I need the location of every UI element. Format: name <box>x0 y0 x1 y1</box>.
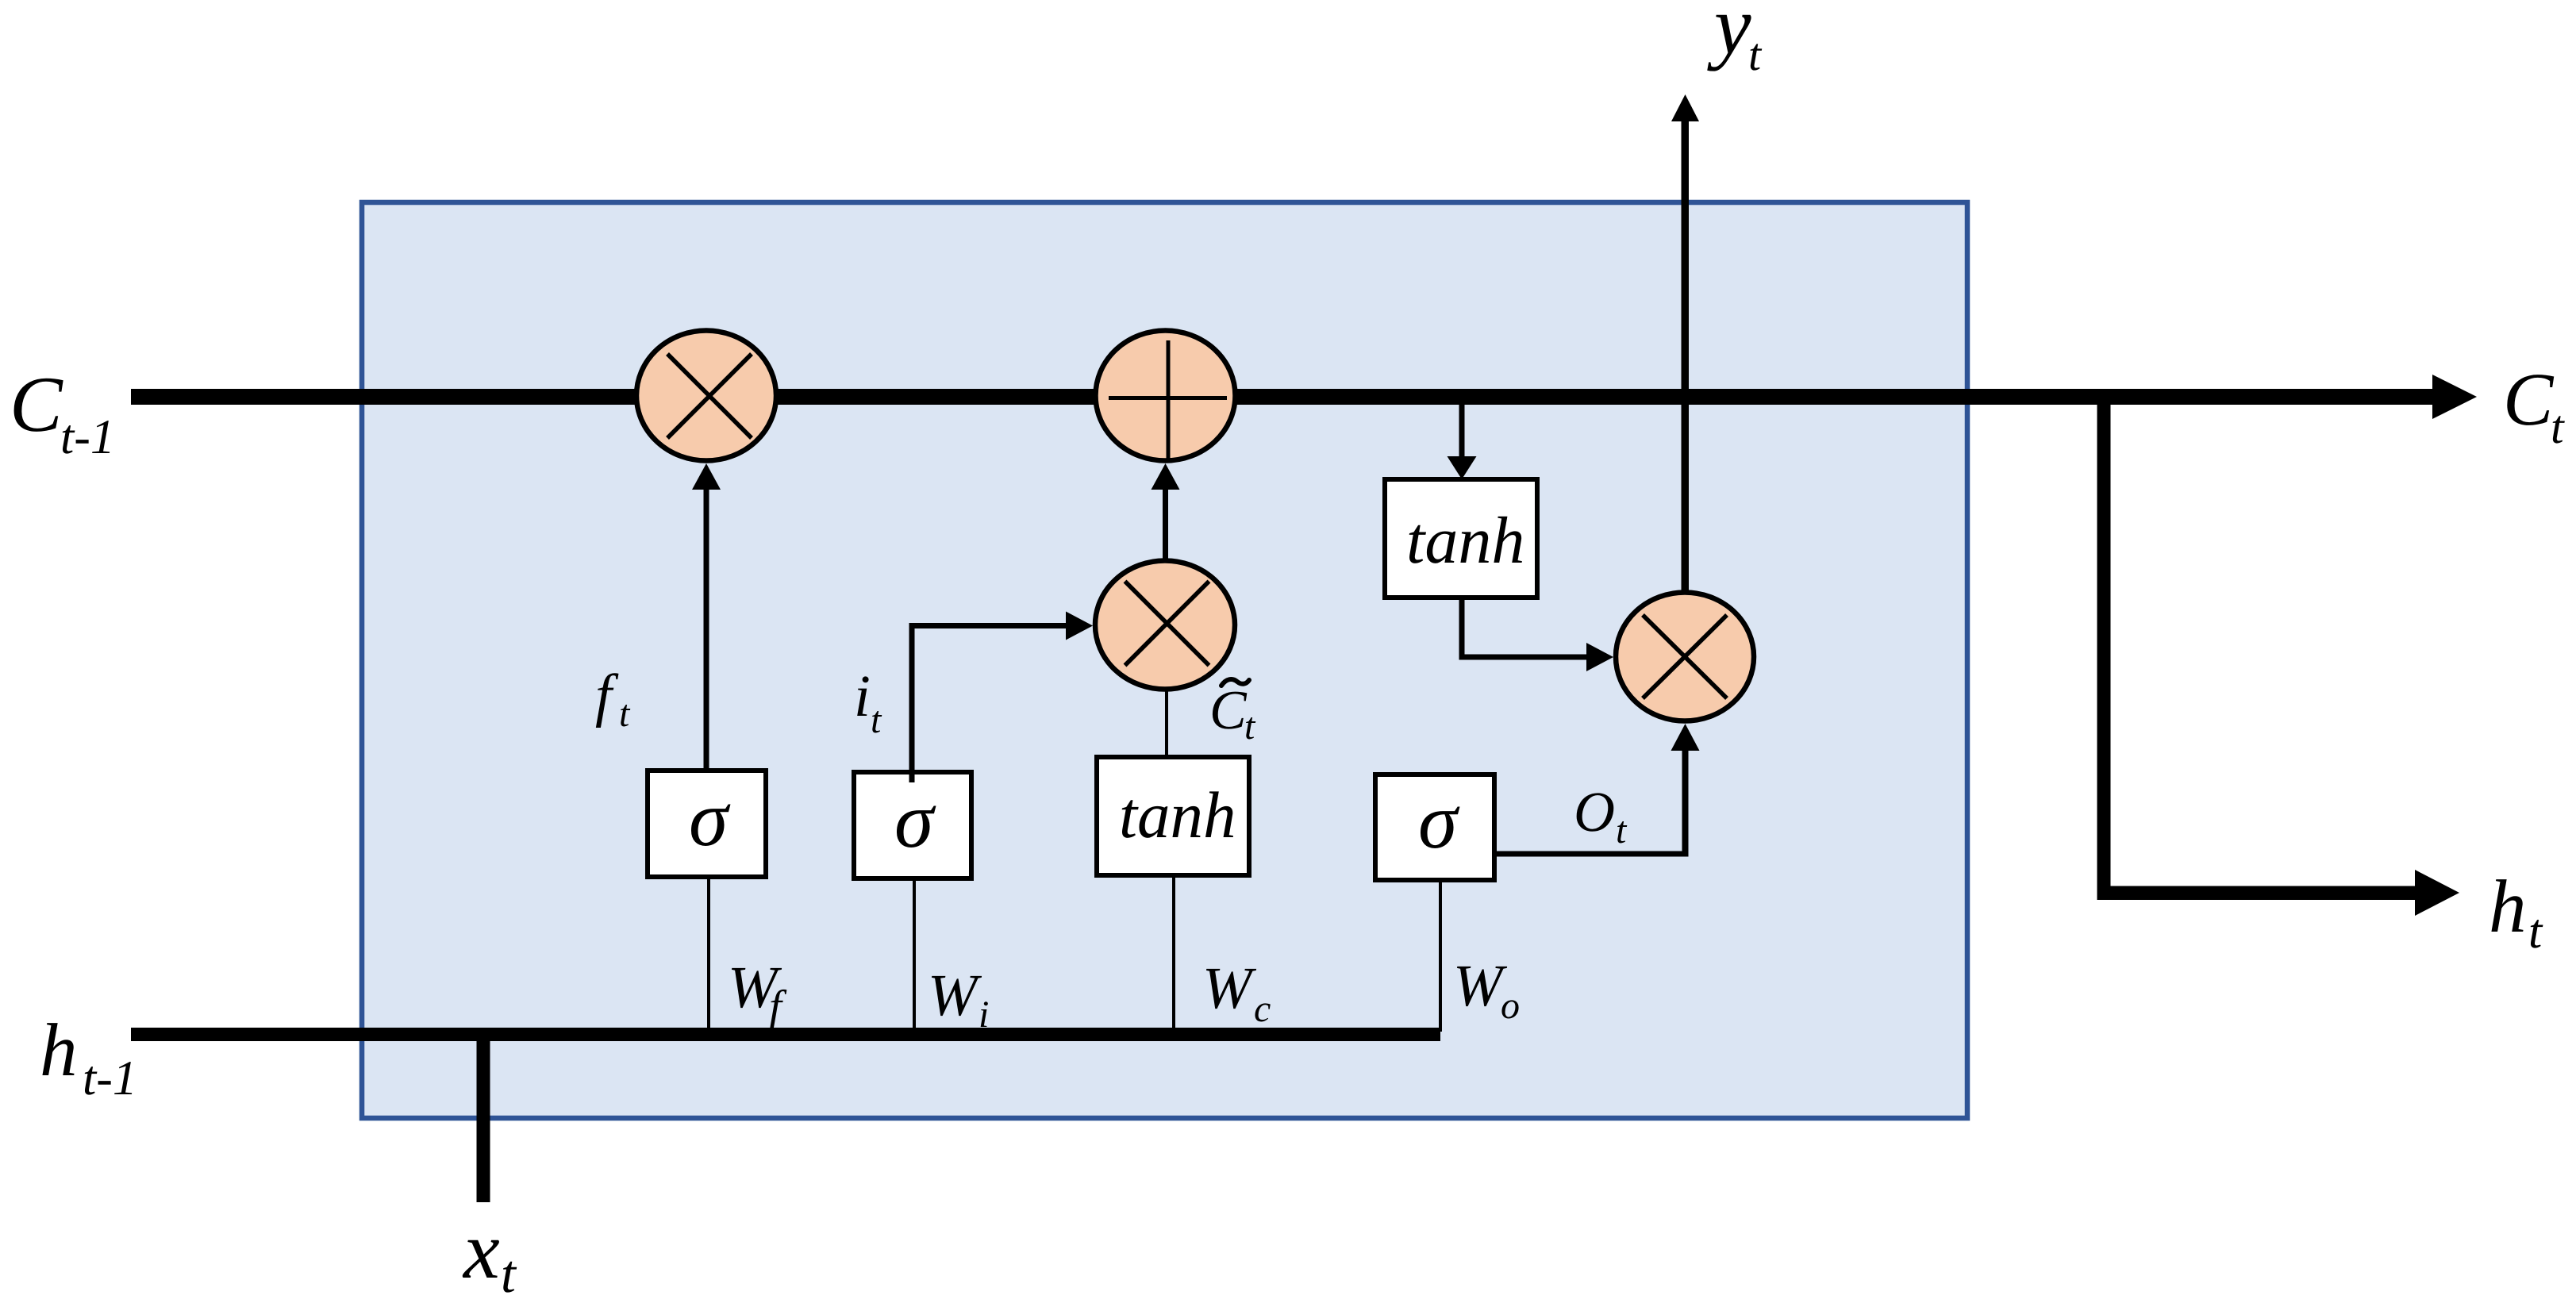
svg-text:σ: σ <box>689 774 731 863</box>
wire h line (ht-1 input) <box>131 1028 1440 1041</box>
wire C line (Ct-1 to Ct) <box>131 389 2435 405</box>
svg-text:tanh: tanh <box>1406 504 1524 578</box>
wire sigma_f to h line (W_f tap) <box>707 875 710 1030</box>
op multiply circle 3 (output gate) <box>1616 593 1754 721</box>
label W_i <box>928 963 989 1036</box>
wire candidate to plus circle arrow <box>1163 487 1168 561</box>
label C~_t <box>1209 679 1256 748</box>
wire O_t elbow from sigma_o to output multiply circle <box>1494 851 1688 857</box>
svg-text:h: h <box>40 1008 78 1092</box>
gate tanh output box <box>1385 479 1537 598</box>
wire h_t branch: horizontal <box>2097 886 2417 901</box>
svg-text:o: o <box>1501 985 1520 1027</box>
svg-text:O: O <box>1574 780 1615 844</box>
label C_t-1 <box>10 360 115 464</box>
wire multiply circle to tanh_c box <box>1165 690 1168 760</box>
label W_f <box>728 955 787 1032</box>
svg-text:t: t <box>2551 401 2565 453</box>
op multiply circle 1 (forget gate) <box>636 331 776 461</box>
wire i_t elbow from sigma_i to multiply circle <box>909 623 915 778</box>
gate sigma_i box <box>854 772 971 878</box>
svg-text:t: t <box>2528 905 2543 959</box>
wire x_t vertical <box>477 1034 490 1202</box>
LSTM cell body rectangle <box>362 202 1967 1118</box>
label C_t <box>2503 357 2565 453</box>
op plus circle (cell update) <box>1096 331 1236 461</box>
svg-text:t: t <box>1616 809 1628 851</box>
svg-text:t-1: t-1 <box>83 1051 137 1105</box>
label W_o <box>1453 953 1520 1027</box>
svg-text:t: t <box>619 693 631 735</box>
svg-text:t: t <box>1244 705 1256 748</box>
svg-text:i: i <box>854 663 871 729</box>
node y_t arrowhead <box>1671 94 1699 121</box>
svg-text:W: W <box>928 963 982 1028</box>
wire h_t branch: vertical from C line <box>2097 397 2111 900</box>
wire branch from C line down to tanh box <box>1459 397 1465 459</box>
label h_t-1 <box>40 1008 137 1105</box>
label y_t <box>1707 0 1763 80</box>
svg-text:t: t <box>871 699 882 741</box>
svg-text:W: W <box>1453 953 1508 1019</box>
node C output arrowhead <box>2432 375 2477 419</box>
wire sigma_o to h line (W_o tap) <box>1439 878 1442 1032</box>
wire sigma_i to h line (W_i tap) <box>913 877 916 1032</box>
wire y_t vertical output <box>1682 121 1690 598</box>
svg-text:h: h <box>2489 864 2527 948</box>
svg-text:C: C <box>1209 680 1248 741</box>
svg-text:c: c <box>1254 988 1271 1030</box>
label W_c <box>1202 955 1271 1030</box>
svg-text:t: t <box>1748 29 1763 80</box>
label x_t <box>462 1205 517 1303</box>
svg-text:σ: σ <box>894 776 936 864</box>
gate tanh_c box <box>1097 757 1249 875</box>
wire tanh box elbow to output multiply circle <box>1459 598 1465 659</box>
label i_t <box>854 663 882 741</box>
label f_t <box>595 663 631 735</box>
wire tanh_c to h line (W_c tap) <box>1172 874 1175 1032</box>
svg-text:tanh: tanh <box>1119 778 1236 851</box>
svg-text:σ: σ <box>1418 777 1460 865</box>
svg-text:t: t <box>501 1243 517 1303</box>
svg-text:y: y <box>1707 0 1751 71</box>
label O_t <box>1574 780 1628 851</box>
wire f_t arrow: sigma_f up to multiply circle <box>704 487 709 772</box>
svg-text:C: C <box>2503 357 2555 441</box>
op multiply circle 2 (input x candidate) <box>1095 561 1235 690</box>
gate sigma_f box <box>648 771 766 877</box>
svg-text:C: C <box>10 360 63 448</box>
svg-text:x: x <box>462 1205 500 1296</box>
node h_t output arrowhead <box>2415 870 2459 916</box>
gate sigma_o box <box>1375 774 1494 880</box>
svg-text:i: i <box>978 994 989 1036</box>
svg-text:t-1: t-1 <box>60 410 115 464</box>
label h_t <box>2489 864 2543 959</box>
svg-text:W: W <box>1202 955 1257 1021</box>
